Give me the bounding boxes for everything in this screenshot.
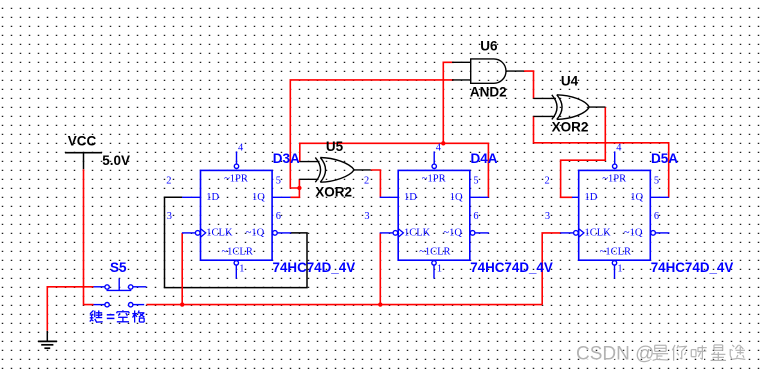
svg-text:U6: U6	[480, 39, 498, 54]
svg-text:1Q: 1Q	[450, 192, 463, 203]
svg-text:6: 6	[276, 211, 281, 222]
svg-text:1CLK: 1CLK	[404, 227, 431, 238]
svg-text:1CLK: 1CLK	[206, 227, 233, 238]
svg-text:1D: 1D	[206, 192, 219, 203]
svg-text:~1PR: ~1PR	[422, 174, 446, 185]
svg-text:S5: S5	[110, 260, 127, 275]
svg-text:XOR2: XOR2	[315, 185, 352, 200]
svg-text:VCC: VCC	[68, 133, 97, 148]
svg-text:1: 1	[239, 263, 244, 274]
svg-text:3: 3	[364, 211, 369, 222]
svg-text:74HC74D_4V: 74HC74D_4V	[470, 260, 553, 275]
svg-text:1CLK: 1CLK	[585, 227, 612, 238]
svg-text:~1CLR: ~1CLR	[222, 246, 253, 257]
svg-text:3: 3	[545, 211, 550, 222]
svg-text:~1Q: ~1Q	[246, 227, 265, 238]
svg-text:4: 4	[616, 142, 622, 153]
svg-text:5: 5	[276, 175, 281, 186]
svg-text:1: 1	[437, 263, 442, 274]
svg-text:4: 4	[238, 142, 244, 153]
svg-text:~1PR: ~1PR	[602, 174, 626, 185]
svg-text:D4A: D4A	[471, 151, 498, 166]
svg-text:~1Q: ~1Q	[443, 227, 462, 238]
svg-text:6: 6	[473, 211, 478, 222]
svg-text:74HC74D_4V: 74HC74D_4V	[273, 260, 356, 275]
svg-text:~1CLR: ~1CLR	[419, 246, 450, 257]
svg-text:1D: 1D	[404, 192, 417, 203]
svg-text:1: 1	[617, 263, 622, 274]
svg-text:~1CLR: ~1CLR	[600, 246, 631, 257]
svg-text:6: 6	[654, 211, 659, 222]
svg-text:D5A: D5A	[651, 151, 678, 166]
svg-text:CSDN @: CSDN @	[576, 344, 654, 365]
svg-text:1Q: 1Q	[252, 192, 265, 203]
svg-text:2: 2	[545, 175, 550, 186]
svg-text:5: 5	[473, 175, 478, 186]
svg-text:74HC74D_4V: 74HC74D_4V	[651, 260, 734, 275]
svg-text:AND2: AND2	[470, 85, 507, 100]
svg-text:~1Q: ~1Q	[624, 227, 643, 238]
svg-text:5.0V: 5.0V	[102, 153, 130, 168]
svg-text:2: 2	[364, 175, 369, 186]
svg-text:D3A: D3A	[273, 151, 300, 166]
svg-text:4: 4	[436, 142, 442, 153]
svg-text:~1PR: ~1PR	[224, 174, 248, 185]
svg-text:U5: U5	[326, 139, 344, 154]
svg-text:3: 3	[167, 211, 172, 222]
svg-text:1D: 1D	[585, 192, 598, 203]
svg-text:XOR2: XOR2	[552, 120, 589, 135]
svg-text:U4: U4	[561, 74, 579, 89]
svg-text:2: 2	[166, 175, 171, 186]
svg-text:5: 5	[654, 175, 659, 186]
svg-text:1Q: 1Q	[630, 192, 643, 203]
